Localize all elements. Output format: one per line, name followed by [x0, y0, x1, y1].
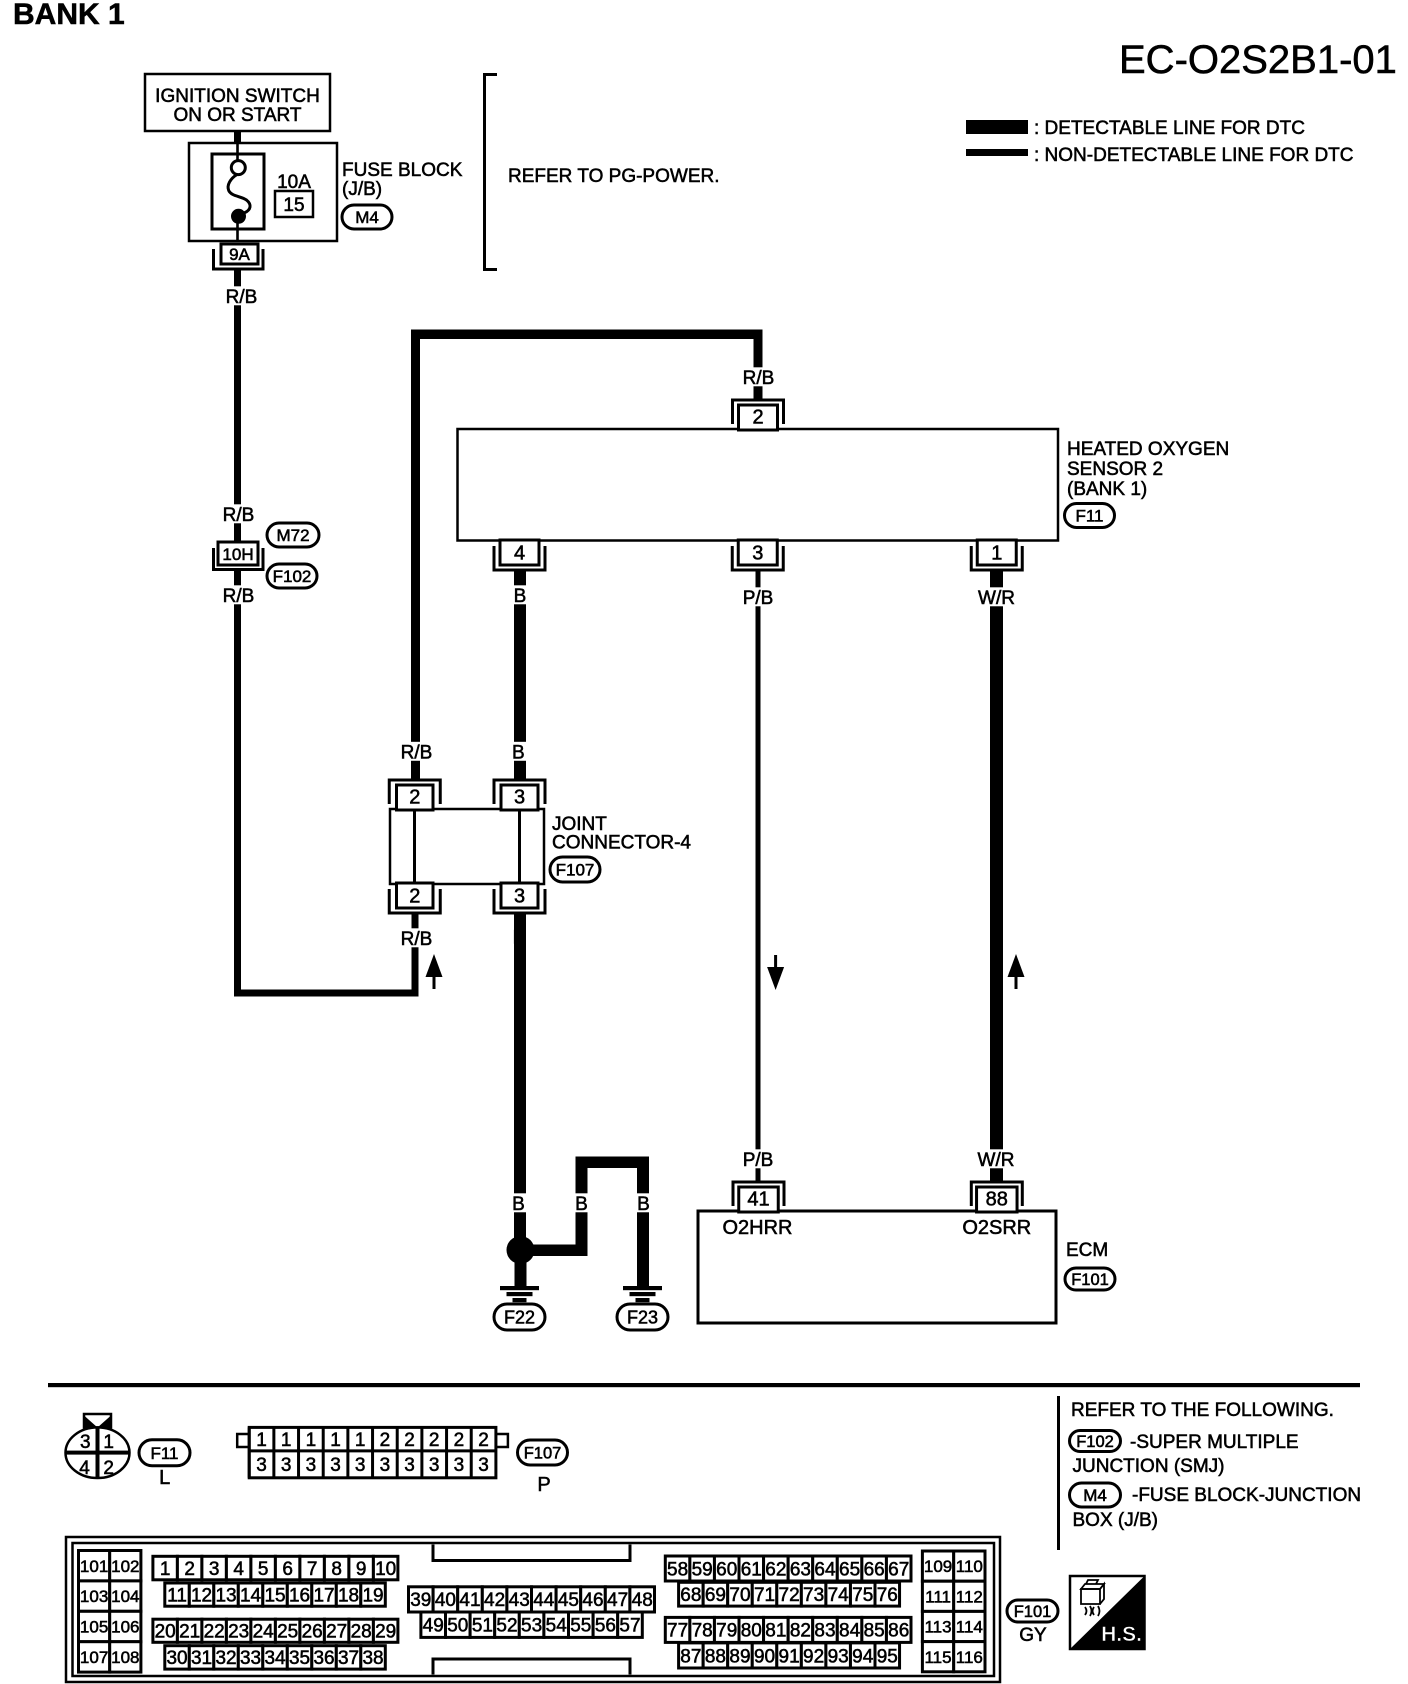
- ECM terminal row 49-57: [421, 1612, 642, 1637]
- svg-text:57: 57: [619, 1616, 640, 1637]
- svg-text:73: 73: [803, 1585, 824, 1606]
- direction arrow up on W/R wire: [1008, 954, 1025, 989]
- svg-text:B: B: [514, 586, 527, 607]
- svg-text:21: 21: [179, 1622, 200, 1643]
- svg-text:3: 3: [209, 1559, 220, 1580]
- svg-text:58: 58: [667, 1559, 688, 1580]
- wire B junction to ground F22: [515, 1262, 527, 1286]
- svg-text:P: P: [537, 1474, 550, 1496]
- svg-text:1: 1: [991, 542, 1002, 564]
- svg-text:3: 3: [256, 1455, 267, 1476]
- svg-text:110: 110: [956, 1557, 983, 1576]
- sensor pin 3 bottom: [732, 540, 783, 570]
- joint connector bottom pin 3: [494, 883, 545, 913]
- svg-text:3: 3: [281, 1455, 292, 1476]
- svg-text:M4: M4: [355, 208, 379, 227]
- svg-text:78: 78: [692, 1621, 713, 1642]
- svg-text:3: 3: [355, 1455, 366, 1476]
- wire B branch riser up: [576, 1162, 588, 1250]
- svg-text:82: 82: [790, 1621, 811, 1642]
- footer connector view F107 strip: [237, 1427, 508, 1477]
- wire B joint connector pin 3 down to ground junction: [514, 913, 526, 1243]
- svg-text:4: 4: [233, 1559, 244, 1580]
- svg-text:16: 16: [289, 1585, 310, 1606]
- svg-text:38: 38: [362, 1648, 383, 1669]
- svg-text:O2HRR: O2HRR: [722, 1217, 792, 1239]
- svg-text:ECM: ECM: [1066, 1240, 1108, 1261]
- svg-text:: NON-DETECTABLE LINE FOR DTC: : NON-DETECTABLE LINE FOR DTC: [1034, 145, 1354, 166]
- svg-text:91: 91: [779, 1646, 800, 1667]
- svg-text:B: B: [512, 1194, 525, 1215]
- svg-text:40: 40: [435, 1590, 456, 1611]
- svg-text:92: 92: [803, 1646, 824, 1667]
- svg-text:111: 111: [925, 1587, 951, 1606]
- svg-text:54: 54: [546, 1616, 568, 1637]
- svg-text:23: 23: [228, 1622, 249, 1643]
- svg-text:20: 20: [155, 1622, 176, 1643]
- sensor pin 1 bottom: [971, 540, 1022, 570]
- svg-text:46: 46: [582, 1590, 603, 1611]
- connector F102 oval: [267, 564, 317, 588]
- svg-text:101: 101: [80, 1557, 108, 1576]
- junction node dot: [507, 1236, 535, 1264]
- ECM terminal row 58-67: [665, 1556, 911, 1581]
- svg-text:O2SRR: O2SRR: [962, 1217, 1031, 1239]
- footer super multiple junction text: [1073, 1432, 1299, 1477]
- svg-text:M4: M4: [1083, 1486, 1107, 1505]
- svg-text:1: 1: [330, 1430, 341, 1451]
- ECM box: [698, 1211, 1056, 1323]
- svg-text:105: 105: [80, 1618, 108, 1637]
- ECM terminal name O2HRR: [722, 1217, 792, 1239]
- fuse rating 10A: [277, 172, 311, 193]
- footer F107 color code P: [537, 1474, 550, 1496]
- H.S. logo: [1070, 1576, 1145, 1649]
- svg-text:115: 115: [924, 1648, 951, 1667]
- svg-text:29: 29: [375, 1622, 396, 1643]
- svg-text:75: 75: [852, 1585, 873, 1606]
- ECM connector F101 oval: [1065, 1268, 1115, 1290]
- svg-text:62: 62: [765, 1559, 786, 1580]
- ECM connector view inner frame: [73, 1543, 995, 1676]
- svg-text:88: 88: [986, 1189, 1008, 1211]
- connector M72 oval: [267, 523, 319, 547]
- svg-text:61: 61: [741, 1559, 762, 1580]
- wire label B below joint connector pin 3: [510, 927, 528, 949]
- svg-text:93: 93: [828, 1646, 849, 1667]
- wire label R/B above sensor pin 2: [738, 367, 779, 389]
- svg-text:53: 53: [521, 1616, 542, 1637]
- wire label P/B below sensor pin 3: [737, 587, 778, 609]
- svg-text:19: 19: [362, 1585, 383, 1606]
- ECM terminal row 39-48: [409, 1587, 655, 1612]
- svg-text:4: 4: [514, 542, 525, 564]
- wire R/B joint connector top pin 2 up to horizontal run: [411, 334, 420, 780]
- svg-text:(BANK 1): (BANK 1): [1067, 479, 1147, 500]
- svg-text:P/B: P/B: [743, 588, 774, 609]
- svg-text:-SUPER MULTIPLE: -SUPER MULTIPLE: [1130, 1432, 1299, 1453]
- svg-text:3: 3: [380, 1455, 391, 1476]
- svg-text:CONNECTOR-4: CONNECTOR-4: [552, 833, 691, 854]
- svg-text:3: 3: [752, 542, 763, 564]
- svg-text:11: 11: [167, 1585, 187, 1606]
- svg-text:51: 51: [472, 1616, 493, 1637]
- svg-text:R/B: R/B: [743, 368, 775, 389]
- svg-text:104: 104: [111, 1587, 139, 1606]
- wire label R/B above 10H: [218, 504, 259, 526]
- svg-text:2: 2: [478, 1430, 489, 1451]
- svg-text:L: L: [159, 1467, 170, 1489]
- svg-text:1: 1: [306, 1430, 317, 1451]
- svg-text:F23: F23: [627, 1307, 658, 1327]
- wire R/B vertical into joint connector bottom pin 2: [412, 913, 419, 997]
- footer connector view F11 circle: [66, 1414, 130, 1479]
- svg-text:1: 1: [281, 1430, 292, 1451]
- svg-text:REFER TO PG-POWER.: REFER TO PG-POWER.: [508, 166, 720, 187]
- svg-text:-FUSE BLOCK-JUNCTION: -FUSE BLOCK-JUNCTION: [1132, 1485, 1361, 1506]
- svg-text:F11: F11: [1075, 507, 1103, 526]
- svg-text:F107: F107: [556, 861, 595, 880]
- svg-text:94: 94: [852, 1646, 874, 1667]
- ECM label text: [1066, 1240, 1108, 1261]
- diagram code EC-O2S2B1-01: [1119, 38, 1397, 82]
- joint connector top pin 3: [494, 780, 545, 810]
- svg-text:28: 28: [351, 1622, 372, 1643]
- svg-text:2: 2: [103, 1458, 114, 1479]
- sensor connector F11 oval: [1065, 504, 1115, 528]
- svg-text:65: 65: [839, 1559, 860, 1580]
- svg-text:9A: 9A: [229, 245, 250, 264]
- svg-text:69: 69: [705, 1585, 726, 1606]
- svg-text:HEATED OXYGEN: HEATED OXYGEN: [1067, 439, 1229, 460]
- svg-text:R/B: R/B: [401, 929, 433, 950]
- svg-text:39: 39: [410, 1590, 431, 1611]
- svg-text:1: 1: [256, 1430, 267, 1451]
- svg-text:3: 3: [478, 1455, 489, 1476]
- wire label R/B below 9A: [221, 286, 262, 308]
- svg-text:B: B: [637, 1194, 650, 1215]
- ECM connector view outer frame: [66, 1537, 1000, 1682]
- ECM terminal name O2SRR: [962, 1217, 1031, 1239]
- svg-text:84: 84: [839, 1621, 861, 1642]
- footer F11 color code L: [159, 1467, 170, 1489]
- svg-text:79: 79: [716, 1621, 737, 1642]
- svg-text:43: 43: [509, 1590, 530, 1611]
- svg-text:85: 85: [864, 1621, 885, 1642]
- svg-text:ON OR START: ON OR START: [173, 105, 301, 126]
- wire label R/B below joint connector pin 2: [396, 928, 437, 950]
- svg-text:71: 71: [754, 1585, 775, 1606]
- svg-text:F101: F101: [1014, 1603, 1052, 1621]
- svg-text:14: 14: [240, 1585, 262, 1606]
- svg-text:BOX (J/B): BOX (J/B): [1073, 1510, 1159, 1531]
- svg-text:26: 26: [302, 1622, 323, 1643]
- fuse F15 symbol box: [212, 154, 264, 229]
- refer to the following text: [1071, 1400, 1334, 1421]
- footer F11 oval: [139, 1440, 190, 1466]
- direction arrow up at joint connector feed: [426, 954, 443, 989]
- svg-text:70: 70: [729, 1585, 750, 1606]
- svg-text:3: 3: [404, 1455, 415, 1476]
- svg-text:5: 5: [258, 1559, 269, 1580]
- svg-text:F22: F22: [504, 1307, 535, 1327]
- svg-text:106: 106: [111, 1618, 139, 1637]
- svg-text:1: 1: [160, 1559, 171, 1580]
- svg-text:1: 1: [103, 1432, 114, 1453]
- svg-text:114: 114: [956, 1618, 983, 1637]
- svg-text:17: 17: [313, 1585, 334, 1606]
- fuse number 15 box: [275, 191, 313, 217]
- svg-text:3: 3: [454, 1455, 465, 1476]
- svg-text:103: 103: [80, 1587, 108, 1606]
- svg-text:13: 13: [215, 1585, 236, 1606]
- connector pin 9A under fuse block: [214, 244, 264, 269]
- svg-text:FUSE BLOCK: FUSE BLOCK: [342, 160, 463, 181]
- svg-text:3: 3: [330, 1455, 341, 1476]
- svg-text:112: 112: [956, 1587, 983, 1606]
- svg-text:25: 25: [277, 1622, 298, 1643]
- svg-text:107: 107: [80, 1648, 108, 1667]
- legend detectable line text: [1034, 118, 1305, 139]
- svg-text:2: 2: [752, 407, 763, 429]
- svg-text:F102: F102: [273, 567, 312, 586]
- title BANK 1: [13, 0, 125, 31]
- ECM terminal row 87-95: [679, 1643, 900, 1668]
- svg-text:56: 56: [595, 1616, 616, 1637]
- svg-text:45: 45: [558, 1590, 579, 1611]
- ECM terminal row 77-86: [665, 1617, 911, 1642]
- svg-text:R/B: R/B: [401, 743, 433, 764]
- svg-text:2: 2: [409, 787, 420, 809]
- wire label B on branch riser: [573, 1193, 591, 1215]
- joint connector bottom pin 2: [389, 883, 440, 913]
- svg-text:49: 49: [423, 1616, 444, 1637]
- svg-text:15: 15: [264, 1585, 285, 1606]
- footer M4 oval: [1070, 1483, 1121, 1507]
- svg-text:(J/B): (J/B): [342, 179, 382, 200]
- svg-text:27: 27: [326, 1622, 347, 1643]
- refer to pg-power text: [508, 166, 720, 187]
- svg-text:W/R: W/R: [978, 588, 1015, 609]
- svg-text:86: 86: [888, 1621, 909, 1642]
- wire R/B from 10H down and right to joint connector: [234, 570, 419, 997]
- svg-text:47: 47: [607, 1590, 628, 1611]
- svg-text:95: 95: [877, 1646, 898, 1667]
- svg-text:108: 108: [111, 1648, 139, 1667]
- svg-text:R/B: R/B: [223, 505, 255, 526]
- svg-text:10H: 10H: [222, 545, 253, 564]
- svg-text:89: 89: [729, 1646, 750, 1667]
- svg-text:30: 30: [166, 1648, 187, 1669]
- svg-text:90: 90: [754, 1646, 775, 1667]
- footer F102 oval: [1070, 1431, 1121, 1452]
- svg-text:4: 4: [79, 1458, 90, 1479]
- wire B junction dot to branch riser: [520, 1245, 588, 1257]
- svg-text:R/B: R/B: [226, 287, 258, 308]
- footer F101 oval: [1007, 1600, 1058, 1622]
- svg-text:3: 3: [80, 1432, 91, 1453]
- svg-text:116: 116: [956, 1648, 983, 1667]
- wire R/B horizontal run to sensor pin 2: [411, 330, 763, 340]
- wire label R/B above joint connector pin 2: [396, 742, 437, 764]
- ground symbol F23: [617, 1286, 668, 1330]
- direction arrow down on P/B wire: [767, 955, 784, 990]
- svg-text:33: 33: [240, 1648, 261, 1669]
- svg-text:41: 41: [747, 1189, 769, 1211]
- svg-text:77: 77: [667, 1621, 688, 1642]
- svg-text:88: 88: [705, 1646, 726, 1667]
- wire B branch down to ground F23: [637, 1157, 649, 1287]
- svg-text:55: 55: [570, 1616, 591, 1637]
- ground symbol F22: [494, 1286, 545, 1330]
- svg-text:M72: M72: [276, 526, 309, 545]
- svg-text:18: 18: [338, 1585, 359, 1606]
- joint connector label text: [552, 814, 691, 854]
- svg-text:SENSOR 2: SENSOR 2: [1067, 459, 1163, 480]
- svg-text:P/B: P/B: [743, 1150, 774, 1171]
- wire B branch top run: [576, 1157, 650, 1169]
- svg-text:REFER TO THE FOLLOWING.: REFER TO THE FOLLOWING.: [1071, 1400, 1334, 1421]
- joint connector top pin 2: [389, 780, 440, 810]
- svg-text:F102: F102: [1076, 1433, 1114, 1451]
- svg-text:2: 2: [429, 1430, 440, 1451]
- svg-text:113: 113: [924, 1618, 951, 1637]
- svg-text:F107: F107: [524, 1444, 562, 1462]
- ECM terminal row 20-29: [153, 1619, 398, 1642]
- svg-text:32: 32: [215, 1648, 236, 1669]
- svg-text:31: 31: [191, 1648, 212, 1669]
- svg-text:36: 36: [313, 1648, 334, 1669]
- ECM terminal block 101-108: [79, 1551, 141, 1673]
- svg-text:B: B: [575, 1194, 588, 1215]
- ECM pin 41: [733, 1182, 784, 1212]
- svg-text:67: 67: [888, 1559, 909, 1580]
- svg-text:41: 41: [459, 1590, 480, 1611]
- legend non-detectable line sample bar: [966, 149, 1028, 156]
- svg-text:2: 2: [380, 1430, 391, 1451]
- wire B sensor pin 4 down to joint connector pin 3: [514, 571, 526, 780]
- joint connector-4 body: [390, 809, 544, 884]
- svg-text:7: 7: [307, 1559, 318, 1580]
- refer to pg-power bracket: [485, 75, 498, 270]
- ECM pin 88: [971, 1182, 1022, 1212]
- svg-text:72: 72: [779, 1585, 800, 1606]
- wire label W/R below sensor pin 1: [976, 587, 1017, 609]
- svg-text:F11: F11: [150, 1444, 178, 1463]
- wire R/B down to heated oxygen sensor pin 2: [754, 339, 763, 399]
- wire label P/B above ECM pin 41: [737, 1149, 778, 1171]
- svg-text:3: 3: [429, 1455, 440, 1476]
- svg-text:59: 59: [692, 1559, 713, 1580]
- svg-text:F101: F101: [1071, 1271, 1109, 1289]
- wire label B above ground F23: [635, 1193, 653, 1215]
- footer F107 oval: [518, 1440, 568, 1465]
- sensor pin 2 top: [733, 400, 784, 430]
- svg-text:R/B: R/B: [223, 586, 255, 607]
- svg-text:12: 12: [191, 1585, 212, 1606]
- connector 10H between M72 and F102: [214, 542, 264, 570]
- footer F101 color code GY: [1019, 1625, 1047, 1646]
- svg-text:W/R: W/R: [978, 1150, 1015, 1171]
- fuse block outer box: [189, 143, 337, 241]
- svg-text:74: 74: [828, 1585, 850, 1606]
- svg-text:GY: GY: [1019, 1625, 1047, 1646]
- heated oxygen sensor label text: [1067, 439, 1229, 500]
- svg-text:3: 3: [514, 787, 525, 809]
- heated oxygen sensor 2 box: [458, 429, 1059, 541]
- svg-text:42: 42: [484, 1590, 505, 1611]
- svg-text:3: 3: [306, 1455, 317, 1476]
- ECM terminal row 68-76: [679, 1582, 900, 1606]
- ECM connector view top notch: [433, 1545, 630, 1561]
- wire label R/B below 10H: [218, 585, 259, 607]
- fuse block connector M4 oval: [342, 205, 392, 229]
- wire ignition switch to fuse block: [234, 130, 241, 144]
- svg-text:76: 76: [877, 1585, 898, 1606]
- sensor pin 4 bottom: [494, 540, 545, 570]
- svg-text:2: 2: [404, 1430, 415, 1451]
- wire P/B sensor pin 3 down to ECM pin 41: [756, 571, 761, 1182]
- svg-text:6: 6: [282, 1559, 293, 1580]
- wire label W/R above ECM pin 88: [975, 1149, 1016, 1171]
- svg-text:2: 2: [184, 1559, 195, 1580]
- svg-text:50: 50: [447, 1616, 468, 1637]
- ECM terminal row 11-19: [165, 1583, 385, 1606]
- svg-text:B: B: [512, 743, 525, 764]
- svg-text:EC-O2S2B1-01: EC-O2S2B1-01: [1119, 38, 1397, 82]
- ignition switch box: [145, 74, 330, 131]
- footer divider line: [1057, 1396, 1060, 1550]
- legend detectable line sample bar: [966, 120, 1028, 134]
- svg-text:8: 8: [331, 1559, 342, 1580]
- svg-text:: DETECTABLE LINE FOR DTC: : DETECTABLE LINE FOR DTC: [1034, 118, 1305, 139]
- svg-text:3: 3: [514, 885, 525, 907]
- ECM terminal row 1-10: [153, 1556, 398, 1580]
- svg-text:48: 48: [632, 1590, 653, 1611]
- svg-text:102: 102: [111, 1557, 139, 1576]
- svg-text:IGNITION SWITCH: IGNITION SWITCH: [155, 86, 320, 107]
- svg-text:24: 24: [253, 1622, 275, 1643]
- separator line: [48, 1383, 1360, 1387]
- svg-text:80: 80: [741, 1621, 762, 1642]
- wire label B above ground F22: [510, 1193, 528, 1215]
- svg-text:34: 34: [264, 1648, 286, 1669]
- svg-text:87: 87: [680, 1646, 701, 1667]
- svg-text:9: 9: [356, 1559, 367, 1580]
- svg-text:52: 52: [496, 1616, 517, 1637]
- wire W/R sensor pin 1 down to ECM pin 88: [990, 571, 1003, 1182]
- wire label B below sensor pin 4: [511, 585, 529, 607]
- svg-text:109: 109: [924, 1557, 952, 1576]
- fuse block label text: [342, 160, 463, 200]
- svg-text:15: 15: [283, 195, 304, 216]
- svg-text:1: 1: [355, 1430, 366, 1451]
- svg-text:60: 60: [716, 1559, 737, 1580]
- svg-text:35: 35: [289, 1648, 310, 1669]
- svg-text:37: 37: [338, 1648, 359, 1669]
- svg-text:64: 64: [814, 1559, 836, 1580]
- svg-text:10: 10: [375, 1559, 396, 1580]
- joint connector F107 oval: [550, 857, 600, 882]
- ECM terminal row 30-38: [165, 1646, 385, 1670]
- svg-text:44: 44: [533, 1590, 555, 1611]
- svg-text:2: 2: [454, 1430, 465, 1451]
- svg-text:JUNCTION (SMJ): JUNCTION (SMJ): [1073, 1456, 1225, 1477]
- svg-text:83: 83: [814, 1621, 835, 1642]
- svg-text:66: 66: [864, 1559, 885, 1580]
- svg-text:63: 63: [790, 1559, 811, 1580]
- svg-text:2: 2: [409, 885, 420, 907]
